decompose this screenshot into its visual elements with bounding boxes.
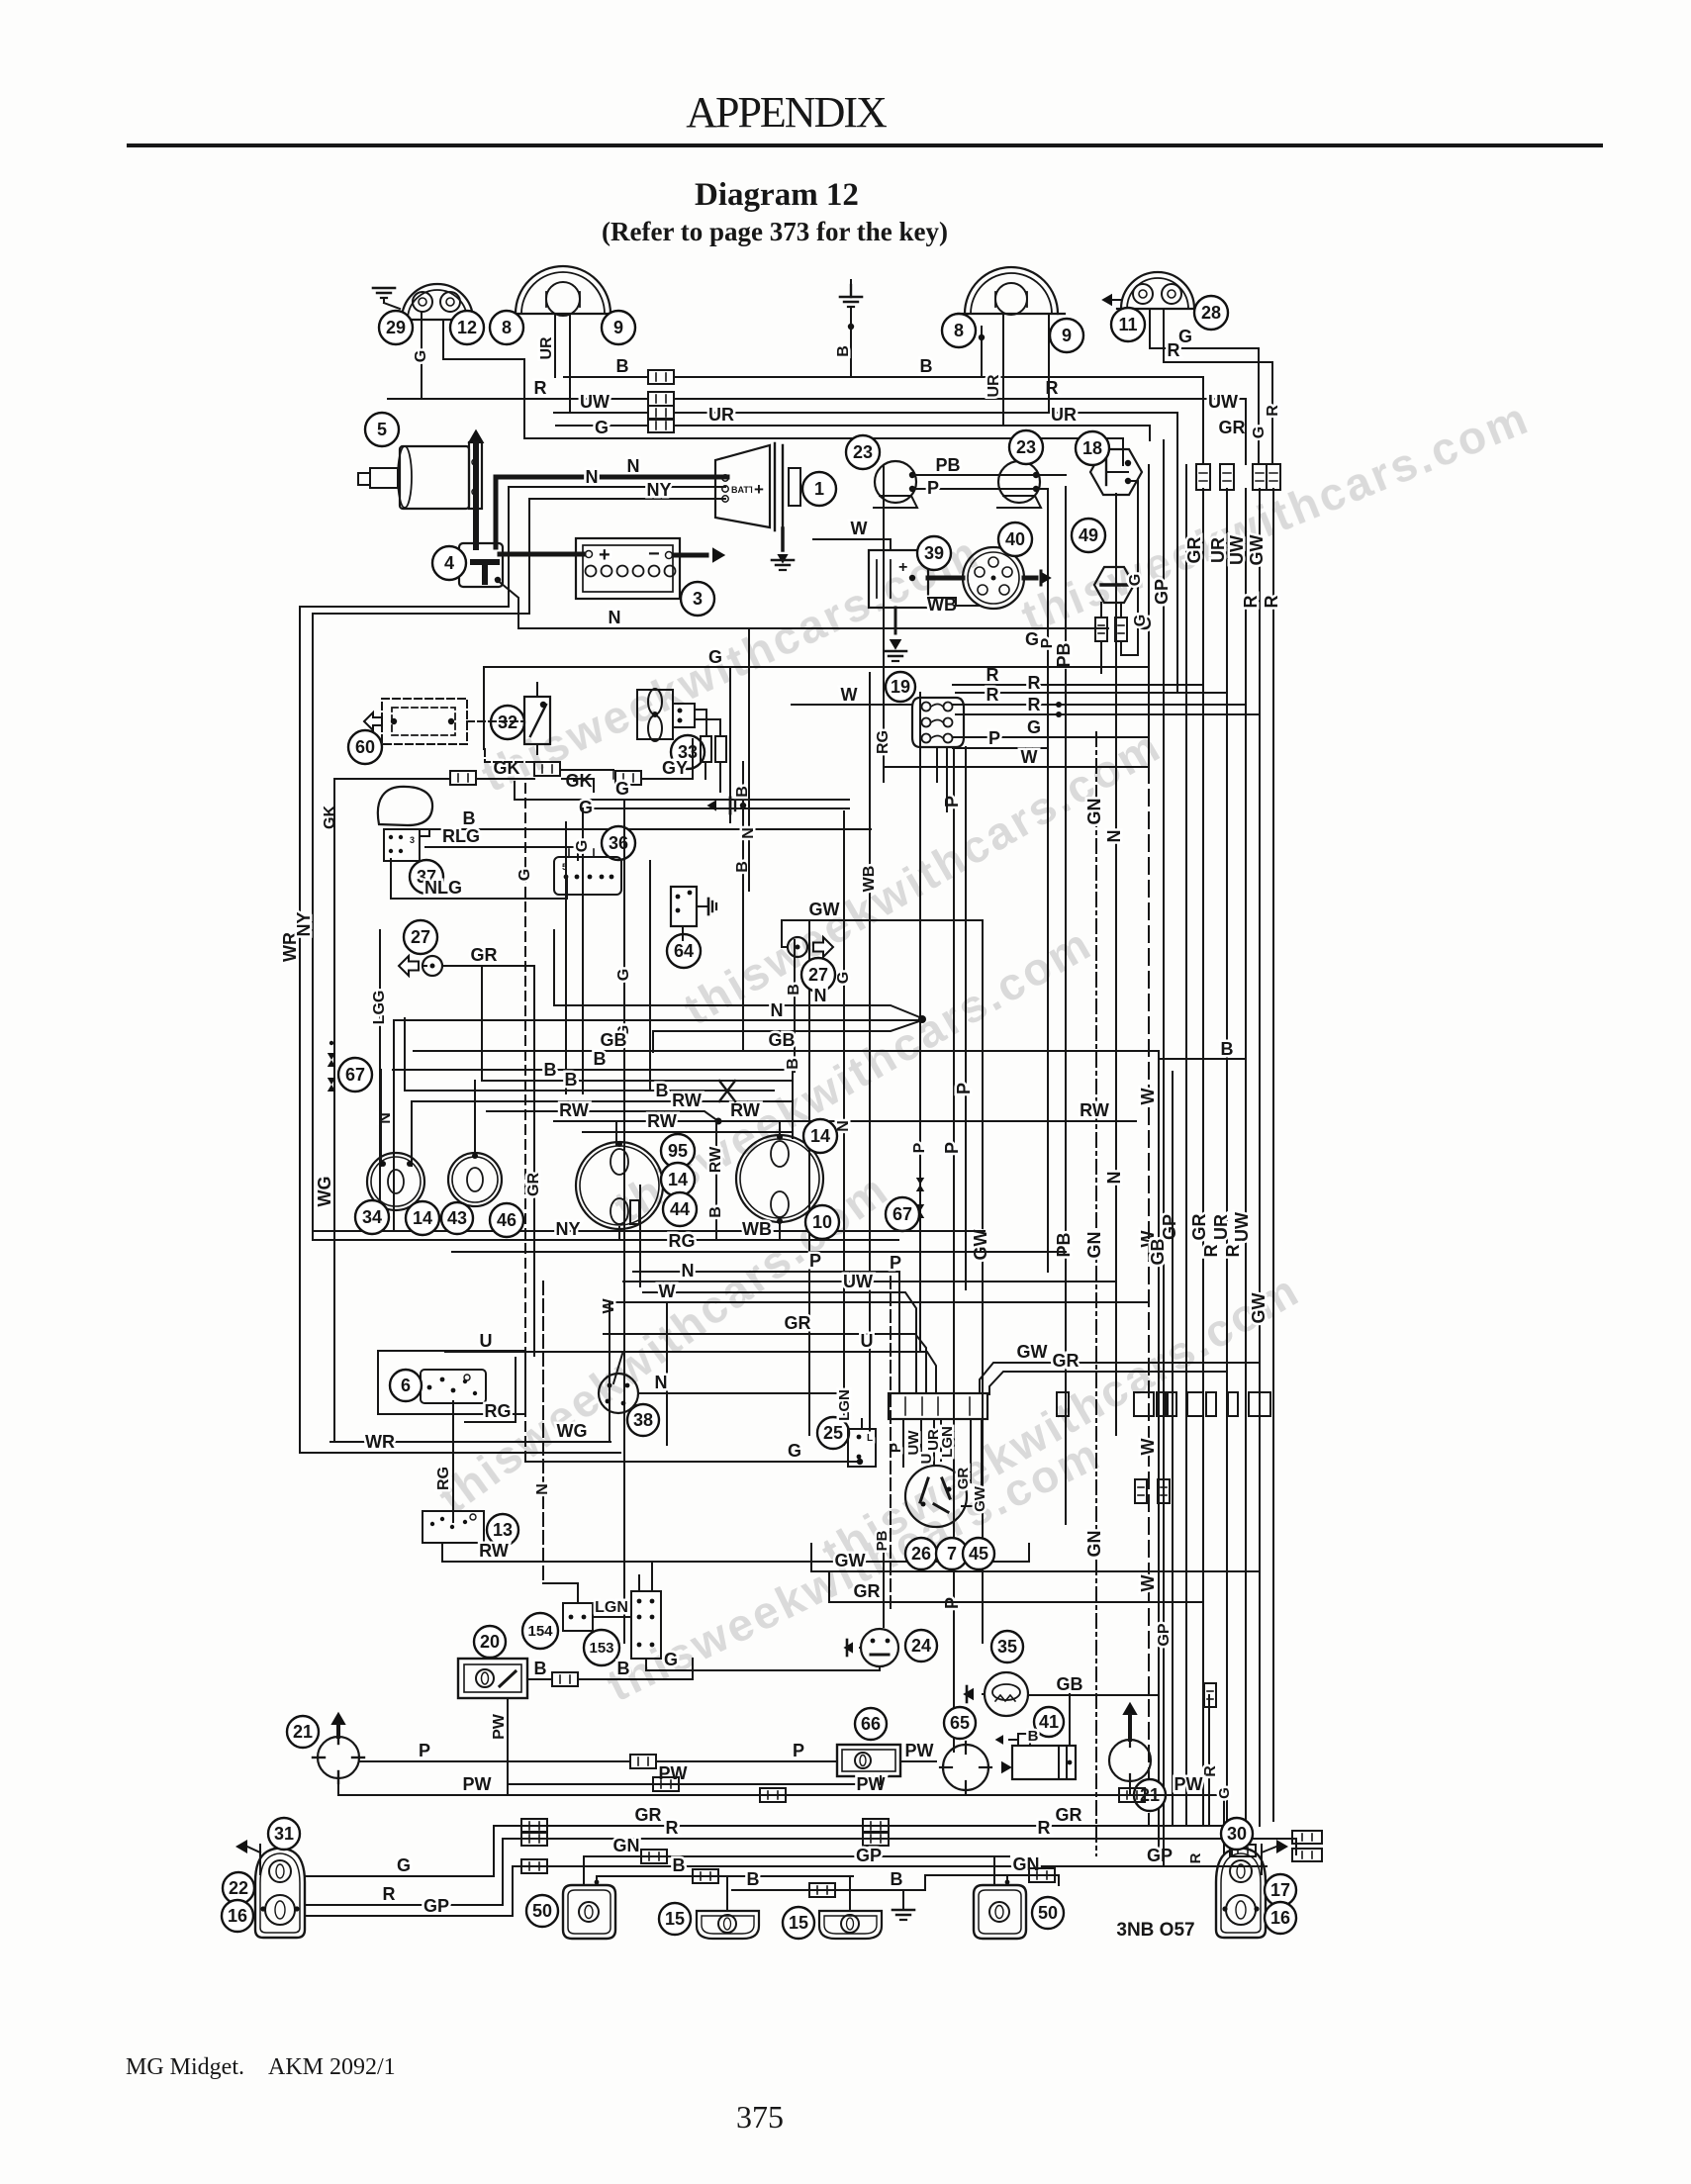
svg-text:+: + [754, 480, 764, 499]
svg-text:L: L [867, 1433, 873, 1444]
svg-text:PW: PW [491, 1713, 508, 1740]
svg-text:N: N [586, 467, 599, 487]
svg-text:G: G [1027, 717, 1041, 737]
svg-text:27: 27 [411, 927, 430, 947]
svg-text:PB: PB [1054, 1232, 1074, 1257]
svg-text:8: 8 [954, 321, 964, 340]
svg-text:38: 38 [633, 1410, 653, 1430]
svg-text:GW: GW [1247, 534, 1267, 565]
svg-text:RG: RG [669, 1231, 696, 1251]
svg-text:W: W [1138, 1089, 1158, 1105]
svg-text:PB: PB [1054, 642, 1074, 667]
svg-text:3: 3 [693, 589, 703, 609]
svg-text:B: B [1028, 1728, 1039, 1745]
svg-text:GP: GP [856, 1846, 882, 1865]
svg-text:23: 23 [853, 442, 873, 462]
svg-text:22: 22 [229, 1878, 248, 1898]
svg-text:N: N [682, 1261, 695, 1281]
svg-text:G: G [397, 1855, 411, 1875]
svg-text:50: 50 [532, 1901, 552, 1921]
svg-text:Diagram 12: Diagram 12 [695, 177, 859, 213]
svg-text:P: P [954, 1083, 974, 1094]
svg-text:GR: GR [525, 1173, 542, 1196]
svg-text:B: B [920, 356, 933, 376]
svg-text:20: 20 [480, 1632, 500, 1652]
svg-text:GB: GB [1148, 1238, 1168, 1265]
svg-text:PW: PW [1174, 1774, 1203, 1794]
svg-text:5: 5 [377, 420, 387, 439]
svg-text:W: W [1138, 1439, 1158, 1456]
svg-text:G: G [615, 969, 632, 981]
svg-text:UW: UW [905, 1430, 922, 1456]
svg-text:B: B [707, 1206, 724, 1218]
svg-text:9: 9 [613, 318, 623, 337]
svg-text:LGN: LGN [595, 1599, 628, 1616]
svg-text:WR: WR [365, 1432, 395, 1452]
svg-text:30: 30 [1227, 1824, 1247, 1844]
svg-text:R: R [1046, 378, 1059, 398]
svg-text:10: 10 [812, 1212, 832, 1232]
svg-text:G: G [574, 840, 591, 852]
svg-text:GB: GB [1057, 1674, 1083, 1694]
svg-text:15: 15 [789, 1913, 808, 1933]
svg-text:G: G [517, 869, 533, 881]
svg-text:GR: GR [1184, 536, 1204, 563]
svg-text:29: 29 [386, 318, 406, 337]
svg-text:R: R [1262, 596, 1281, 609]
svg-text:PW: PW [659, 1763, 688, 1783]
svg-text:B: B [673, 1855, 686, 1875]
svg-text:+: + [599, 544, 611, 566]
svg-text:GP: GP [423, 1896, 449, 1916]
svg-text:B: B [656, 1081, 669, 1100]
svg-text:P: P [988, 728, 1000, 748]
svg-text:9: 9 [1062, 326, 1072, 345]
svg-text:B: B [594, 1049, 607, 1069]
svg-text:R: R [1168, 340, 1180, 360]
svg-text:19: 19 [891, 677, 910, 697]
svg-text:PW: PW [463, 1774, 492, 1794]
svg-text:GN: GN [1084, 1232, 1104, 1259]
svg-text:RG: RG [435, 1467, 452, 1490]
svg-text:B: B [1221, 1039, 1234, 1059]
svg-text:6: 6 [401, 1376, 411, 1395]
svg-text:21: 21 [293, 1722, 313, 1742]
svg-text:15: 15 [665, 1909, 685, 1929]
svg-text:B: B [835, 345, 852, 357]
svg-text:GP: GP [1156, 1623, 1173, 1646]
svg-text:26: 26 [911, 1544, 931, 1564]
svg-text:GW: GW [972, 1485, 988, 1512]
svg-text:RG: RG [485, 1401, 512, 1421]
svg-text:16: 16 [228, 1906, 247, 1926]
svg-text:U: U [861, 1331, 874, 1351]
svg-text:W: W [659, 1282, 676, 1301]
svg-text:N: N [771, 1000, 784, 1020]
svg-text:GN: GN [1013, 1854, 1040, 1874]
svg-text:R: R [1241, 596, 1261, 609]
svg-text:G: G [595, 418, 609, 437]
svg-text:B: B [463, 808, 476, 828]
svg-text:B: B [786, 984, 802, 996]
svg-text:P: P [419, 1741, 430, 1760]
svg-text:UW: UW [1227, 535, 1247, 565]
svg-text:N: N [534, 1483, 551, 1495]
svg-text:R: R [1223, 1245, 1243, 1258]
svg-text:GN: GN [613, 1836, 640, 1855]
svg-text:PB: PB [874, 1530, 891, 1551]
svg-text:−: − [648, 543, 660, 565]
svg-text:G: G [708, 647, 722, 667]
svg-text:11: 11 [1118, 315, 1137, 334]
svg-text:N: N [609, 608, 621, 627]
svg-text:8: 8 [502, 318, 512, 337]
svg-text:39: 39 [924, 543, 944, 563]
svg-text:GP: GP [1160, 1214, 1179, 1240]
svg-text:25: 25 [823, 1423, 843, 1443]
svg-text:7: 7 [947, 1544, 957, 1564]
svg-text:GR: GR [635, 1805, 662, 1825]
svg-text:G: G [788, 1441, 801, 1461]
svg-text:44: 44 [670, 1199, 690, 1219]
svg-text:B: B [617, 1659, 630, 1678]
svg-text:27: 27 [808, 965, 828, 985]
svg-text:+: + [898, 559, 907, 576]
svg-text:G: G [835, 972, 852, 984]
svg-text:G: G [1132, 615, 1149, 626]
svg-text:B: B [747, 1869, 760, 1889]
svg-text:14: 14 [668, 1170, 688, 1189]
svg-text:NY: NY [555, 1219, 580, 1239]
svg-text:GR: GR [1189, 1213, 1209, 1240]
svg-text:RW: RW [479, 1541, 509, 1561]
svg-text:W: W [1021, 747, 1038, 767]
svg-text:GW: GW [971, 1229, 990, 1260]
svg-text:P: P [890, 1253, 901, 1273]
svg-text:50: 50 [1038, 1903, 1058, 1923]
svg-text:UR: UR [708, 405, 734, 425]
svg-text:APPENDIX: APPENDIX [686, 88, 887, 137]
svg-text:GR: GR [471, 945, 498, 965]
svg-text:GK: GK [566, 771, 593, 791]
svg-text:64: 64 [674, 941, 694, 961]
svg-text:(Refer to page 373 for the key: (Refer to page 373 for the key) [602, 217, 948, 246]
svg-text:R: R [1038, 1818, 1051, 1838]
svg-text:UR: UR [1208, 537, 1228, 563]
svg-text:MG Midget. AKM 2092/1: MG Midget. AKM 2092/1 [126, 2054, 396, 2080]
svg-text:N: N [814, 986, 827, 1005]
svg-text:UW: UW [1208, 392, 1238, 412]
svg-text:375: 375 [736, 2099, 784, 2135]
svg-text:GK: GK [322, 806, 338, 829]
svg-text:G: G [579, 798, 593, 817]
svg-text:41: 41 [1039, 1712, 1059, 1732]
svg-text:R: R [1028, 673, 1041, 693]
svg-text:GW: GW [835, 1551, 866, 1570]
svg-text:RW: RW [707, 1146, 724, 1173]
svg-text:U: U [480, 1331, 493, 1351]
svg-text:UR: UR [1211, 1214, 1231, 1240]
svg-text:P: P [927, 478, 939, 498]
svg-text:GB: GB [601, 1030, 627, 1050]
svg-text:R: R [1201, 1245, 1221, 1258]
svg-text:GW: GW [1017, 1342, 1048, 1362]
svg-text:N: N [740, 827, 757, 839]
svg-text:3NB O57: 3NB O57 [1116, 1920, 1194, 1941]
svg-text:G: G [615, 779, 629, 799]
svg-text:R: R [534, 378, 547, 398]
svg-text:67: 67 [345, 1065, 365, 1085]
svg-text:14: 14 [413, 1208, 432, 1228]
svg-text:GP: GP [1152, 579, 1172, 605]
svg-text:N: N [1104, 1172, 1124, 1185]
svg-text:GR: GR [785, 1313, 811, 1333]
svg-text:W: W [851, 519, 868, 538]
svg-text:PB: PB [935, 455, 960, 475]
svg-text:LGN: LGN [836, 1389, 853, 1421]
svg-text:16: 16 [1270, 1908, 1290, 1928]
svg-text:GY: GY [662, 758, 688, 778]
svg-text:66: 66 [861, 1714, 881, 1734]
svg-text:GR: GR [854, 1581, 881, 1601]
svg-text:GN: GN [1084, 799, 1104, 825]
svg-text:B: B [544, 1060, 557, 1080]
svg-text:GN: GN [1084, 1531, 1104, 1558]
svg-text:GW: GW [809, 900, 840, 919]
svg-text:RW: RW [730, 1100, 760, 1120]
svg-text:45: 45 [969, 1544, 988, 1564]
svg-text:UW: UW [1232, 1212, 1252, 1242]
svg-text:G: G [1178, 327, 1192, 346]
svg-text:P: P [911, 1142, 928, 1153]
svg-text:B: B [891, 1869, 903, 1889]
svg-text:13: 13 [493, 1520, 513, 1540]
svg-text:N: N [655, 1373, 668, 1392]
svg-text:RLG: RLG [442, 826, 480, 846]
svg-text:35: 35 [997, 1637, 1017, 1657]
svg-text:RW: RW [559, 1100, 589, 1120]
svg-text:34: 34 [362, 1207, 382, 1227]
svg-text:G: G [413, 350, 429, 362]
svg-text:GB: GB [769, 1030, 796, 1050]
svg-text:R: R [986, 685, 999, 705]
svg-text:LGG: LGG [371, 991, 388, 1025]
svg-text:GR: GR [1053, 1351, 1080, 1371]
svg-text:28: 28 [1201, 303, 1221, 323]
svg-text:R: R [666, 1818, 679, 1838]
svg-text:UR: UR [538, 336, 555, 360]
svg-text:3: 3 [410, 835, 415, 845]
svg-text:WB: WB [861, 866, 878, 893]
svg-text:W: W [1138, 1575, 1158, 1592]
svg-text:P: P [809, 1251, 821, 1271]
svg-text:GR: GR [1219, 418, 1246, 437]
svg-text:GR: GR [1056, 1805, 1082, 1825]
svg-text:UW: UW [843, 1272, 873, 1291]
svg-text:49: 49 [1079, 525, 1098, 545]
svg-text:P: P [942, 1142, 962, 1154]
svg-text:NLG: NLG [424, 878, 462, 898]
svg-text:UR: UR [1051, 405, 1077, 425]
svg-text:NY: NY [646, 480, 671, 500]
svg-text:R: R [1187, 1852, 1204, 1863]
svg-text:G: G [1127, 574, 1144, 586]
svg-text:23: 23 [1016, 437, 1036, 457]
svg-text:36: 36 [609, 833, 628, 853]
svg-text:N: N [627, 456, 640, 476]
svg-text:GW: GW [1249, 1292, 1268, 1323]
svg-text:B: B [534, 1659, 547, 1678]
svg-text:17: 17 [1270, 1880, 1290, 1900]
svg-text:31: 31 [274, 1824, 294, 1844]
svg-text:NY: NY [294, 911, 314, 936]
svg-text:GP: GP [1147, 1846, 1173, 1865]
svg-text:12: 12 [457, 318, 477, 337]
svg-text:GR: GR [955, 1468, 972, 1490]
svg-text:R: R [383, 1884, 396, 1904]
svg-text:WB: WB [742, 1219, 772, 1239]
svg-text:4: 4 [444, 553, 454, 573]
svg-text:18: 18 [1082, 438, 1102, 458]
svg-text:WG: WG [315, 1177, 334, 1207]
svg-text:95: 95 [668, 1141, 688, 1161]
svg-text:UR: UR [986, 374, 1002, 398]
svg-text:R: R [1028, 695, 1041, 714]
svg-text:60: 60 [355, 737, 375, 757]
svg-text:BATT: BATT [731, 485, 755, 495]
svg-text:R: R [1265, 405, 1281, 417]
svg-text:RW: RW [647, 1111, 677, 1131]
svg-text:RW: RW [1080, 1100, 1109, 1120]
svg-text:G: G [664, 1650, 678, 1669]
svg-text:46: 46 [497, 1210, 517, 1230]
svg-text:1: 1 [814, 479, 824, 499]
svg-text:N: N [1104, 830, 1124, 843]
svg-text:B: B [616, 356, 629, 376]
svg-text:40: 40 [1005, 529, 1025, 549]
svg-text:N: N [835, 1120, 852, 1132]
svg-text:B: B [565, 1070, 578, 1090]
svg-text:G: G [1216, 1787, 1233, 1799]
svg-text:65: 65 [950, 1713, 970, 1733]
svg-text:W: W [841, 685, 858, 705]
svg-text:153: 153 [589, 1640, 613, 1657]
svg-text:67: 67 [892, 1204, 912, 1224]
svg-text:154: 154 [527, 1623, 553, 1640]
svg-text:14: 14 [810, 1126, 830, 1146]
svg-text:UW: UW [580, 392, 610, 412]
svg-text:P: P [793, 1741, 804, 1760]
svg-text:G: G [1025, 629, 1039, 649]
svg-text:B: B [785, 1058, 801, 1070]
svg-text:RW: RW [672, 1091, 702, 1110]
svg-text:RG: RG [875, 730, 892, 754]
svg-text:G: G [1251, 427, 1268, 438]
svg-text:LGN: LGN [939, 1426, 956, 1458]
svg-text:WG: WG [557, 1421, 588, 1441]
svg-text:24: 24 [911, 1636, 931, 1656]
svg-text:R: R [1202, 1765, 1219, 1777]
svg-text:U: U [918, 1454, 935, 1465]
svg-text:43: 43 [447, 1208, 467, 1228]
svg-text:PW: PW [905, 1741, 934, 1760]
svg-text:P: P [942, 796, 962, 807]
